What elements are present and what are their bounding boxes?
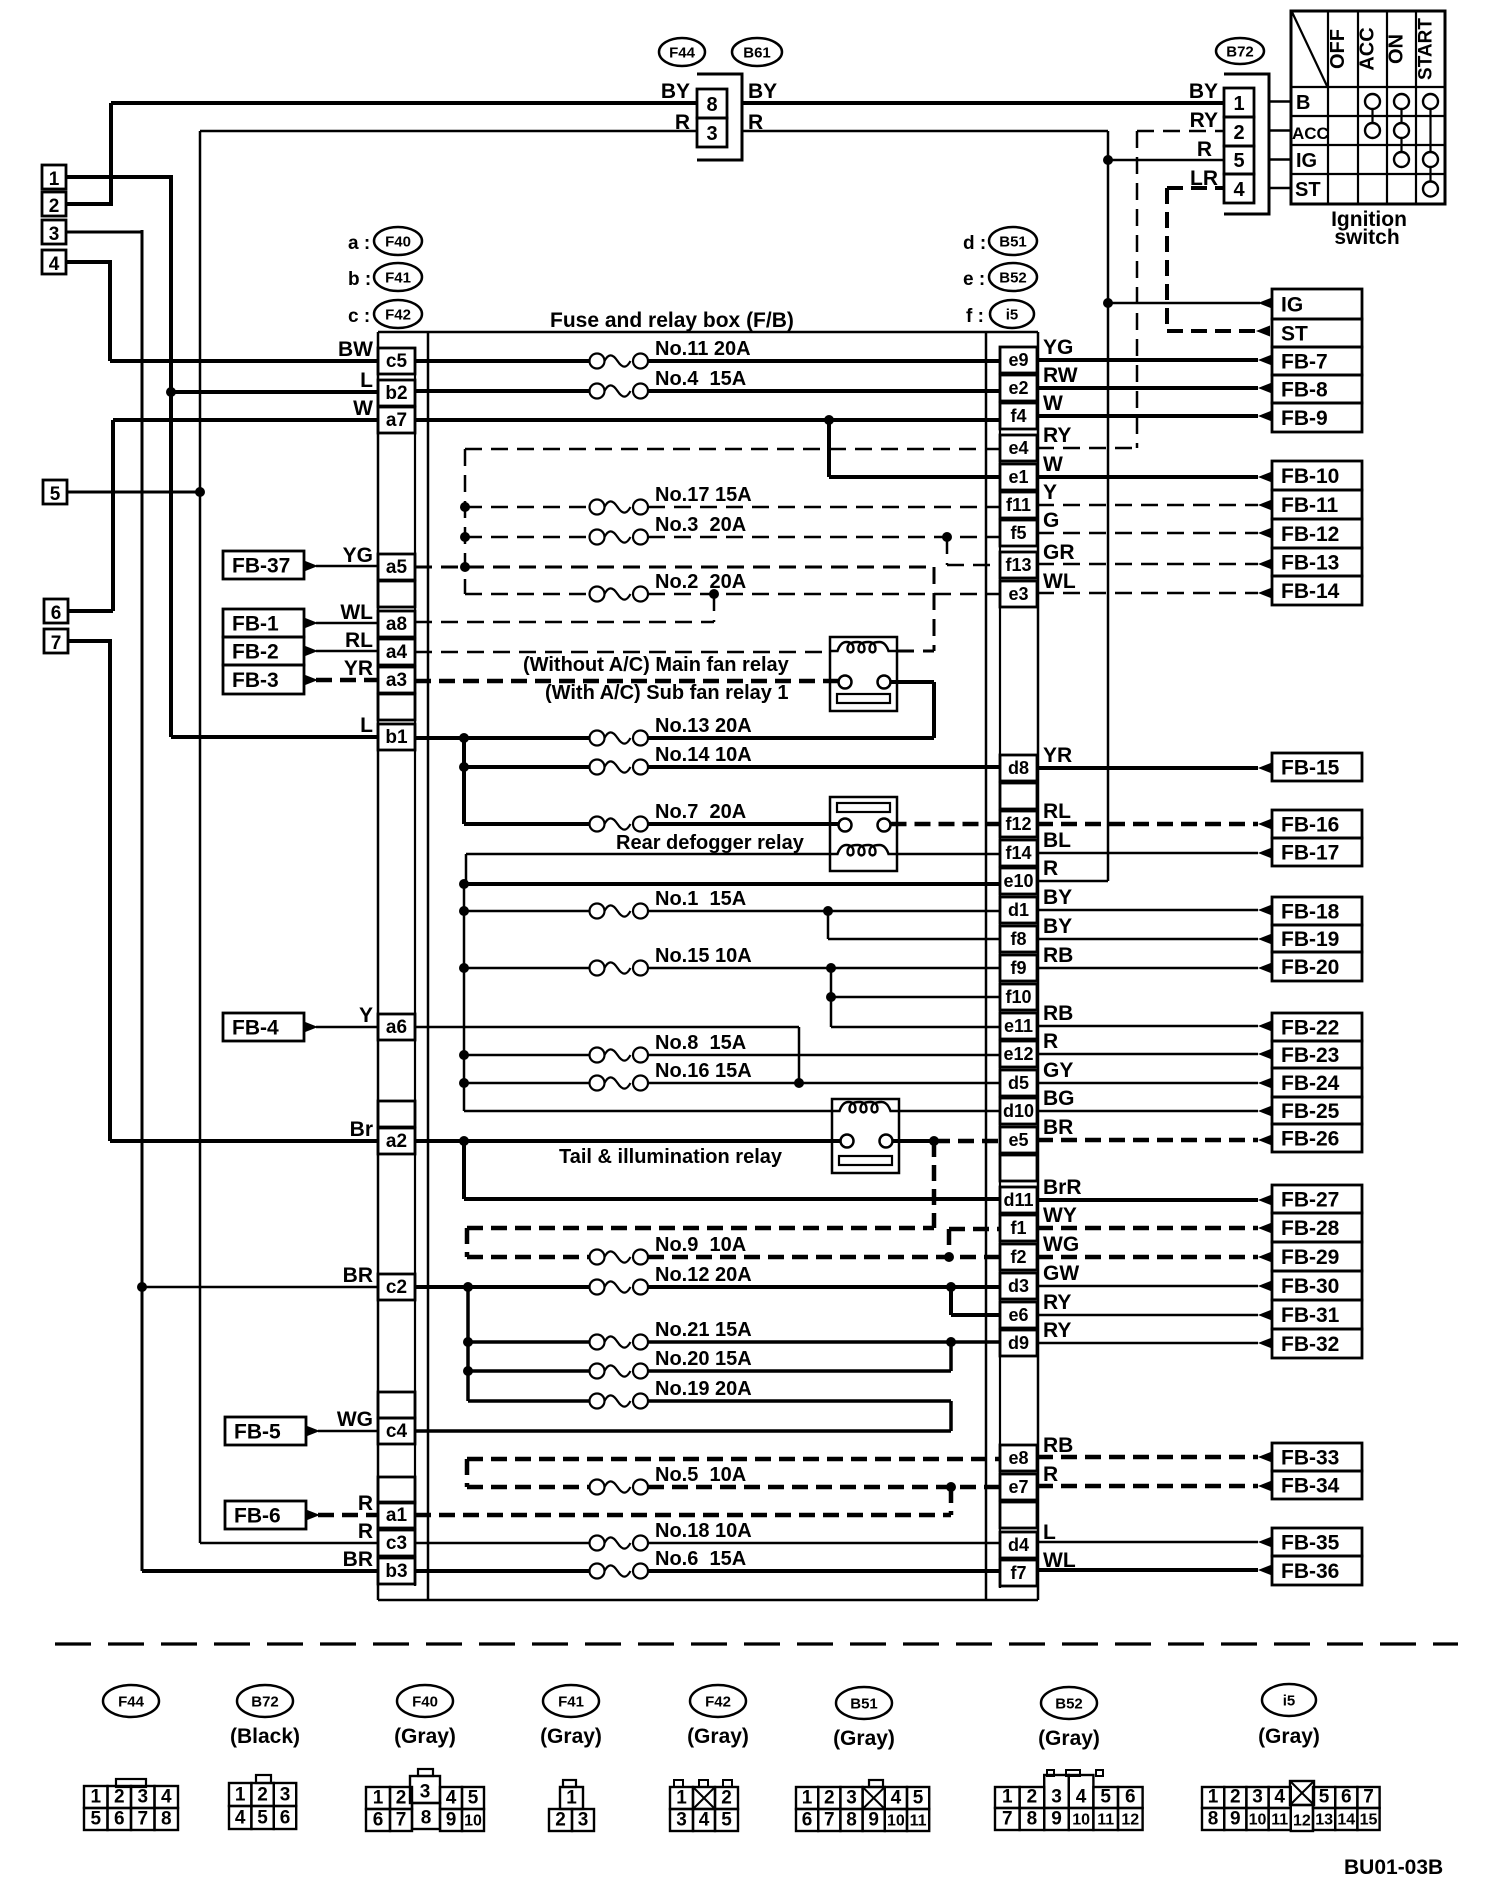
wire defogger coil return to e10 feed xyxy=(466,854,830,884)
wire c4 WG to FB-5 xyxy=(306,1426,378,1437)
node FB-18 xyxy=(1272,897,1362,925)
svg-text:b1: b1 xyxy=(385,727,408,748)
svg-text:8: 8 xyxy=(1208,1809,1219,1830)
ignition switch column headers xyxy=(1327,18,1437,80)
svg-text:4: 4 xyxy=(235,1808,246,1829)
svg-text:5: 5 xyxy=(1319,1787,1330,1808)
wire a8 branch xyxy=(415,594,714,622)
svg-text:RW: RW xyxy=(1043,364,1078,387)
svg-text:3: 3 xyxy=(706,123,717,145)
ignition switch table grid xyxy=(1291,11,1445,204)
junction e10 feed at No.15 xyxy=(459,963,469,973)
left strip blank cell xyxy=(378,1392,415,1418)
node FB-30 xyxy=(1272,1271,1362,1300)
svg-text:f13: f13 xyxy=(1005,555,1031,575)
node FB-33 xyxy=(1272,1443,1362,1471)
svg-text:c4: c4 xyxy=(386,1421,408,1442)
connector F44 pinout xyxy=(84,1779,178,1830)
wire a3 YR to FB-3 xyxy=(304,675,378,686)
connector B72 oval xyxy=(1216,38,1264,64)
pin a4 (left strip) xyxy=(378,639,415,665)
svg-text:FB-27: FB-27 xyxy=(1281,1189,1339,1212)
svg-text:15: 15 xyxy=(1360,1812,1378,1829)
svg-text:2: 2 xyxy=(257,1785,268,1806)
wire f7 WL to FB-36 xyxy=(1037,1565,1272,1576)
fuse No.17 15A xyxy=(465,506,590,509)
wire e1 W to FB-10 xyxy=(1037,472,1272,483)
wire No.19 return to c4 xyxy=(415,1401,951,1431)
svg-text:No.19 20A: No.19 20A xyxy=(655,1378,752,1400)
junction tail relay output xyxy=(929,1136,939,1146)
node FB-11 xyxy=(1272,490,1362,519)
node FB-13 xyxy=(1272,548,1362,576)
svg-text:4: 4 xyxy=(1274,1787,1285,1808)
svg-text:12: 12 xyxy=(1293,1813,1311,1830)
svg-text:(Gray): (Gray) xyxy=(1258,1725,1320,1748)
svg-text:FB-4: FB-4 xyxy=(232,1017,279,1040)
node FB-29 xyxy=(1272,1242,1362,1271)
connector F41 pinout xyxy=(549,1780,594,1831)
svg-text:7: 7 xyxy=(1363,1787,1374,1808)
svg-text:1: 1 xyxy=(373,1788,384,1809)
svg-text:e1: e1 xyxy=(1008,467,1028,487)
svg-text:f10: f10 xyxy=(1005,987,1031,1007)
svg-text:d10: d10 xyxy=(1003,1101,1034,1121)
wire Br net: box7 vertical to a2 row xyxy=(68,639,378,1141)
pin a5 (left strip) xyxy=(378,554,415,580)
svg-text:5: 5 xyxy=(50,484,61,505)
svg-text:1: 1 xyxy=(1002,1787,1013,1808)
connector B51 oval (bottom) xyxy=(836,1687,892,1719)
wire a5 YG to FB-37 xyxy=(304,561,378,572)
pin f4 (right strip) xyxy=(1000,403,1037,429)
svg-text:f8: f8 xyxy=(1010,929,1026,949)
junction c2 at No.20 xyxy=(463,1366,473,1376)
svg-text:FB-5: FB-5 xyxy=(234,1421,281,1444)
node FB-9 xyxy=(1272,403,1362,432)
wire box5 to R vertical xyxy=(67,491,200,494)
svg-text:FB-32: FB-32 xyxy=(1281,1333,1339,1356)
wire e10 feed vertical xyxy=(463,884,466,1111)
fuse No.19 20A xyxy=(468,1399,590,1403)
svg-text:B52: B52 xyxy=(999,270,1027,287)
wire e3 WL to FB-14 xyxy=(1037,588,1272,599)
connector B72 pin 4 xyxy=(1224,174,1254,203)
wire d8 YR to FB-15 xyxy=(1037,763,1272,774)
svg-text:7: 7 xyxy=(137,1809,148,1830)
svg-text:6: 6 xyxy=(1341,1787,1352,1808)
svg-text:11: 11 xyxy=(910,1813,927,1830)
pin e11 (right strip) xyxy=(1000,1013,1037,1039)
wire f12 RL to FB-16 xyxy=(1037,819,1272,830)
wire BY top run to connector F44 pin 8 xyxy=(111,101,696,105)
svg-text:11: 11 xyxy=(1271,1812,1288,1829)
wire tail relay coil feed xyxy=(464,1110,832,1113)
wire W net: box6 vertical to a7 row xyxy=(68,420,113,611)
svg-text:2: 2 xyxy=(114,1787,125,1808)
svg-text:2: 2 xyxy=(49,196,60,217)
svg-text:FB-30: FB-30 xyxy=(1281,1275,1339,1298)
svg-text:BR: BR xyxy=(343,1548,373,1571)
svg-text:(Gray): (Gray) xyxy=(833,1727,895,1750)
svg-text:No.7 20A: No.7 20A xyxy=(655,801,746,823)
connector F41 oval (bottom) xyxy=(543,1685,599,1717)
pin a1 (left strip) xyxy=(378,1502,415,1528)
svg-text:BY: BY xyxy=(748,80,777,103)
svg-text:F42: F42 xyxy=(385,307,411,324)
wire f5 G to FB-12 xyxy=(1037,528,1272,539)
svg-text:FB-2: FB-2 xyxy=(232,641,279,664)
svg-text:e5: e5 xyxy=(1008,1130,1028,1150)
svg-text:5: 5 xyxy=(257,1808,268,1829)
wire W net: a7 row left segment xyxy=(113,418,378,422)
svg-text:1: 1 xyxy=(802,1788,813,1809)
node FB-15 xyxy=(1272,753,1362,781)
pin a8 (left strip) xyxy=(378,611,415,637)
svg-text:a4: a4 xyxy=(386,642,408,663)
label a: connector F40 xyxy=(348,227,422,255)
svg-text:FB-15: FB-15 xyxy=(1281,757,1340,780)
fuse No.18 10A xyxy=(415,1542,590,1545)
svg-text:No.9 10A: No.9 10A xyxy=(655,1234,746,1256)
connector B72 pin 5 xyxy=(1224,146,1254,174)
connector B52 pinout xyxy=(995,1770,1143,1830)
svg-text:BY: BY xyxy=(1043,915,1072,938)
node FB-24 xyxy=(1272,1068,1362,1097)
svg-text:f4: f4 xyxy=(1010,406,1026,426)
svg-text:R: R xyxy=(358,1520,373,1543)
wire b1 vertical xyxy=(462,738,466,824)
wire R net: long vertical to e10 xyxy=(1037,160,1108,881)
svg-text:No.1 15A: No.1 15A xyxy=(655,888,746,910)
svg-text:F40: F40 xyxy=(385,234,411,251)
pin e12 (right strip) xyxy=(1000,1041,1037,1067)
svg-text:d8: d8 xyxy=(1008,758,1029,778)
wire relay contact to No.13 vertical xyxy=(891,682,935,738)
svg-text:(Black): (Black) xyxy=(230,1725,300,1748)
junction e10 feed at No.8 xyxy=(459,1050,469,1060)
pin c2 (left strip) xyxy=(378,1274,415,1300)
wire a1 R to FB-6 xyxy=(306,1510,378,1521)
wire f14 BL to FB-17 xyxy=(1037,848,1272,859)
node FB-25 xyxy=(1272,1097,1362,1124)
wire e5 BR to FB-26 xyxy=(1037,1135,1272,1146)
svg-text:12: 12 xyxy=(1121,1812,1139,1829)
svg-text:11: 11 xyxy=(1097,1812,1114,1829)
junction b1 at No.14 xyxy=(459,762,469,772)
svg-text:2: 2 xyxy=(396,1788,407,1809)
svg-text:B72: B72 xyxy=(1226,44,1254,61)
svg-text:8: 8 xyxy=(846,1810,857,1831)
node FB-7 xyxy=(1272,347,1362,375)
wire BR net: b3 row left segment xyxy=(142,1569,378,1573)
fuse No.20 15A xyxy=(468,1369,590,1373)
svg-text:FB-31: FB-31 xyxy=(1281,1304,1340,1327)
pin b1 (left strip) xyxy=(378,724,415,750)
svg-text:F44: F44 xyxy=(118,1694,145,1711)
wire f13 GR to FB-13 xyxy=(1037,559,1272,570)
junction c2 at No.12 xyxy=(463,1282,473,1292)
junction e10 feed at No.1 xyxy=(459,906,469,916)
svg-text:OFF: OFF xyxy=(1327,29,1349,69)
svg-text:a6: a6 xyxy=(386,1017,407,1038)
svg-text:c5: c5 xyxy=(386,351,408,372)
svg-text:BY: BY xyxy=(1189,80,1218,103)
svg-text:ON: ON xyxy=(1386,34,1408,64)
wire No.9 loop left dashed xyxy=(465,1228,470,1257)
junction ACC vertical at No.3 xyxy=(460,532,470,542)
svg-text:6: 6 xyxy=(802,1810,813,1831)
svg-text:Br: Br xyxy=(350,1118,373,1141)
wire d4 L to FB-35 xyxy=(1037,1537,1272,1548)
svg-text:FB-33: FB-33 xyxy=(1281,1447,1339,1470)
ignition switch contact circles xyxy=(1365,94,1438,197)
svg-text:FB-13: FB-13 xyxy=(1281,552,1339,575)
svg-text:GW: GW xyxy=(1043,1262,1079,1285)
wire B72 pin5 to switch row IG xyxy=(1269,158,1291,161)
node 5 (circuit reference box) xyxy=(43,480,67,505)
wire f2 WG to FB-29 xyxy=(1037,1252,1272,1263)
svg-text:3: 3 xyxy=(846,1788,857,1809)
svg-text:RB: RB xyxy=(1043,1434,1073,1457)
pin f11 (right strip) xyxy=(1000,492,1037,518)
right strip blank cell xyxy=(1000,1155,1037,1181)
wire tail relay contact to e5 xyxy=(893,1139,935,1143)
connector B72 bracket xyxy=(1224,74,1269,214)
svg-text:Fuse and relay box (F/B): Fuse and relay box (F/B) xyxy=(550,309,794,332)
pin e9 (right strip) xyxy=(1000,347,1037,373)
connector i5 oval (bottom) xyxy=(1262,1684,1316,1716)
node FB-22 xyxy=(1272,1013,1362,1041)
node 2 (circuit reference box) xyxy=(42,192,66,217)
svg-text:YG: YG xyxy=(343,544,373,567)
wire a3 YR dashed to relay contact xyxy=(415,679,838,684)
node FB-32 xyxy=(1272,1329,1362,1358)
svg-text:RL: RL xyxy=(345,629,373,652)
wire No.20 tie vertical xyxy=(949,1342,953,1371)
wire ACC dashed vertical xyxy=(464,449,467,594)
svg-text:L: L xyxy=(360,714,373,737)
connector B72 pin 2 xyxy=(1224,117,1254,146)
pin e10 (right strip) xyxy=(1000,868,1037,894)
fuse No.16 15A xyxy=(464,1082,590,1085)
svg-text:c2: c2 xyxy=(386,1277,407,1298)
junction No.15 f10 branch xyxy=(826,963,836,973)
svg-text:BL: BL xyxy=(1043,829,1071,852)
svg-text:FB-34: FB-34 xyxy=(1281,1475,1340,1498)
svg-text:GR: GR xyxy=(1043,541,1075,564)
svg-text:(Gray): (Gray) xyxy=(687,1725,749,1748)
svg-text:7: 7 xyxy=(824,1810,835,1831)
wire B72 pin2 to switch row ACC xyxy=(1269,129,1291,132)
svg-text:d :: d : xyxy=(963,233,986,254)
wire L net: b1 row left segment xyxy=(171,735,378,739)
fuse No.21 15A xyxy=(468,1340,590,1344)
junction f10 branch xyxy=(826,992,836,1002)
node 7 (circuit reference box) xyxy=(44,629,68,654)
svg-text:10: 10 xyxy=(1249,1812,1267,1829)
pin c5 (left strip) xyxy=(378,348,415,374)
wire defogger coil to f14 xyxy=(897,853,1000,856)
pin a6 (left strip) xyxy=(378,1014,415,1040)
fuse No.6 15A xyxy=(415,1569,590,1573)
fuse No.9 10A xyxy=(467,1255,590,1260)
svg-text:W: W xyxy=(1043,392,1063,415)
wire BW net: box4 to c5 xyxy=(66,260,378,361)
svg-text:No.12 20A: No.12 20A xyxy=(655,1264,752,1286)
svg-text:9: 9 xyxy=(1230,1809,1241,1830)
svg-text:No.20 15A: No.20 15A xyxy=(655,1348,752,1370)
pin f8 (right strip) xyxy=(1000,926,1037,952)
svg-text:No.15 10A: No.15 10A xyxy=(655,945,752,967)
fuse No.12 20A xyxy=(415,1285,590,1289)
svg-text:RY: RY xyxy=(1190,109,1218,132)
svg-text:L: L xyxy=(1043,1521,1056,1544)
svg-text:ACC: ACC xyxy=(1357,27,1379,70)
relay rear defogger xyxy=(830,797,897,871)
svg-text:a5: a5 xyxy=(386,557,408,578)
svg-text:B51: B51 xyxy=(850,1696,878,1713)
svg-text:8: 8 xyxy=(161,1809,172,1830)
right strip blank cell xyxy=(1000,783,1037,809)
wire f9 RB to FB-20 xyxy=(1037,963,1272,974)
svg-text:8: 8 xyxy=(421,1808,432,1829)
svg-text:6: 6 xyxy=(51,603,62,624)
svg-text:e12: e12 xyxy=(1003,1044,1033,1064)
svg-text:IG: IG xyxy=(1296,150,1317,172)
pin d10 (right strip) xyxy=(1000,1098,1037,1124)
svg-text:R: R xyxy=(1197,138,1212,161)
svg-text:i5: i5 xyxy=(1283,1693,1296,1710)
connector F44/B61 ovals xyxy=(659,38,782,66)
svg-text:4: 4 xyxy=(49,254,60,275)
wire a6 Y to FB-4 xyxy=(304,1022,378,1033)
svg-text:FB-29: FB-29 xyxy=(1281,1246,1339,1269)
junction R net at box5 row xyxy=(195,487,205,497)
svg-text:Y: Y xyxy=(1043,481,1057,504)
svg-text:FB-17: FB-17 xyxy=(1281,842,1339,865)
fuse No.13 20A xyxy=(415,736,590,740)
wire d10 BG to FB-25 xyxy=(1037,1106,1272,1117)
svg-text:No.3 20A: No.3 20A xyxy=(655,514,746,536)
svg-text:L: L xyxy=(360,369,373,392)
junction R net at B72 pin5 branch xyxy=(1103,155,1113,165)
svg-text:IG: IG xyxy=(1281,294,1303,317)
svg-text:R: R xyxy=(1043,1463,1058,1486)
fuse No.5 10A xyxy=(467,1485,590,1490)
junction No.3 f13 branch xyxy=(942,532,952,542)
svg-text:e10: e10 xyxy=(1003,871,1033,891)
svg-text:1: 1 xyxy=(235,1785,246,1806)
pin e1 (right strip) xyxy=(1000,464,1037,490)
svg-text:ACC: ACC xyxy=(1292,124,1329,143)
svg-text:No.6 15A: No.6 15A xyxy=(655,1548,746,1570)
wire f13 branch xyxy=(947,537,1000,565)
svg-text:4: 4 xyxy=(161,1787,172,1808)
wire R net: F44 pin3 run and vertical xyxy=(200,131,696,1543)
label f: connector i5 xyxy=(966,300,1034,328)
label Ignition switch xyxy=(1331,208,1407,249)
wire e11 RB to FB-22 xyxy=(1037,1021,1272,1032)
pin e8 (right strip) xyxy=(1000,1445,1037,1471)
svg-text:WL: WL xyxy=(340,601,373,624)
wire c2 vertical xyxy=(466,1287,470,1401)
fuse No.7 20A xyxy=(464,822,590,826)
svg-text:FB-10: FB-10 xyxy=(1281,465,1339,488)
svg-text:6: 6 xyxy=(114,1809,125,1830)
connector B72 pinout xyxy=(229,1775,296,1829)
svg-text:No.2 20A: No.2 20A xyxy=(655,571,746,593)
svg-text:No.14 10A: No.14 10A xyxy=(655,744,752,766)
svg-text:a :: a : xyxy=(348,233,370,254)
svg-text:No.11 20A: No.11 20A xyxy=(655,338,751,360)
node FB-1 xyxy=(223,609,304,637)
svg-text:B61: B61 xyxy=(743,45,771,62)
svg-text:FB-9: FB-9 xyxy=(1281,407,1328,430)
fuse No.8 15A xyxy=(464,1054,590,1057)
pin e7 (right strip) xyxy=(1000,1474,1037,1500)
svg-text:6: 6 xyxy=(373,1810,384,1831)
svg-text:WY: WY xyxy=(1043,1204,1077,1227)
connector F44/B61 pin 3 xyxy=(697,118,727,147)
svg-text:2: 2 xyxy=(824,1788,835,1809)
node FB-35 xyxy=(1272,1528,1362,1556)
svg-text:FB-19: FB-19 xyxy=(1281,928,1339,951)
pin f9 (right strip) xyxy=(1000,955,1037,981)
pin c4 (left strip) xyxy=(378,1418,415,1444)
svg-text:FB-25: FB-25 xyxy=(1281,1100,1340,1123)
junction No.1 f8 branch xyxy=(823,906,833,916)
pin f10 (right strip) xyxy=(1000,984,1037,1010)
svg-text:2: 2 xyxy=(1233,122,1244,144)
svg-text:e :: e : xyxy=(963,269,985,290)
junction R net at IG branch xyxy=(1103,298,1113,308)
ignition switch row labels xyxy=(1292,92,1329,201)
svg-text:3: 3 xyxy=(676,1810,687,1831)
node FB-8 xyxy=(1272,375,1362,403)
wire a6 row to No.8 output xyxy=(415,1027,799,1083)
svg-text:f9: f9 xyxy=(1010,958,1026,978)
node FB-27 xyxy=(1272,1185,1362,1213)
svg-text:BY: BY xyxy=(1043,886,1072,909)
wire LR net: B72 pin4 dashed to ST xyxy=(1167,188,1270,337)
node FB-31 xyxy=(1272,1300,1362,1329)
wire e7 R to FB-34 xyxy=(1037,1481,1272,1492)
pin d11 (right strip) xyxy=(1000,1187,1037,1213)
svg-text:F40: F40 xyxy=(412,1694,438,1711)
svg-text:f14: f14 xyxy=(1005,843,1031,863)
svg-text:f12: f12 xyxy=(1005,814,1031,834)
pin f14 (right strip) xyxy=(1000,840,1037,866)
connector F42 pinout xyxy=(670,1780,738,1831)
left strip blank cell xyxy=(378,1101,415,1127)
svg-text:e3: e3 xyxy=(1008,584,1028,604)
svg-text:4: 4 xyxy=(1076,1787,1087,1808)
svg-text:YG: YG xyxy=(1043,336,1073,359)
node FB-17 xyxy=(1272,838,1362,866)
wire a5 row dashed to relay coil xyxy=(415,567,934,651)
svg-text:3: 3 xyxy=(578,1810,589,1831)
svg-text:b3: b3 xyxy=(385,1561,407,1582)
svg-text:FB-16: FB-16 xyxy=(1281,814,1339,837)
wire d3 GW to FB-30 xyxy=(1037,1281,1272,1292)
svg-text:F44: F44 xyxy=(669,45,696,62)
svg-text:FB-6: FB-6 xyxy=(234,1505,281,1528)
svg-text:WL: WL xyxy=(1043,570,1076,593)
svg-text:5: 5 xyxy=(913,1788,924,1809)
svg-text:WG: WG xyxy=(1043,1233,1079,1256)
svg-text:1: 1 xyxy=(49,169,60,190)
